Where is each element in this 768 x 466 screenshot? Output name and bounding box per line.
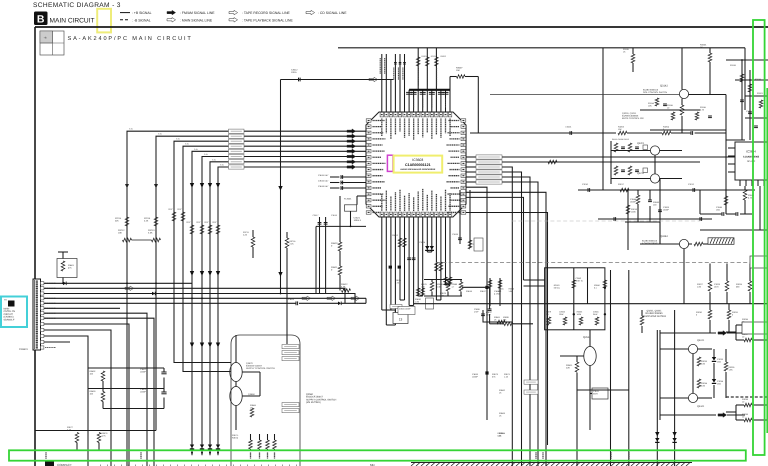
svg-text:MAIN: MAIN — [4, 308, 10, 311]
IC3603 right pin row — [461, 119, 466, 122]
svg-text:: TAPE RECORD SIGNAL LINE: : TAPE RECORD SIGNAL LINE — [242, 11, 291, 15]
svg-text:1.8K: 1.8K — [701, 362, 706, 365]
yellow highlight box (header) — [97, 9, 111, 33]
capacitor C3635 — [458, 237, 462, 239]
legend: CD SIGNAL LINE — [306, 10, 315, 15]
resistor R3578 4.7K — [97, 433, 101, 443]
wires around Q3242 — [640, 243, 679, 245]
svg-text:R3713: R3713 — [148, 229, 155, 232]
svg-text:Q3241: Q3241 — [697, 339, 705, 342]
svg-text:1000P: 1000P — [472, 375, 478, 378]
pin box specks IC3603 left — [368, 120, 370, 122]
svg-text:C3619 0.47: C3619 0.47 — [318, 185, 329, 188]
svg-text:MUTE CONTROL SW: MUTE CONTROL SW — [622, 117, 644, 120]
right margin parts column — [741, 60, 743, 140]
resistor R3210 on right wire — [548, 160, 557, 164]
transistor Q3570 — [230, 363, 242, 382]
CD signal arrow into bundle — [369, 77, 378, 82]
svg-text:R3201: R3201 — [700, 44, 707, 47]
capacitor C3602b — [161, 391, 166, 393]
svg-text:B1GBCFJJ0047: B1GBCFJJ0047 — [246, 365, 263, 368]
svg-text:R3621: R3621 — [331, 266, 338, 269]
wire y430 bottom tie — [35, 430, 156, 432]
IC3604 pin stubs — [728, 147, 735, 149]
signal arrows on vertical bus (lower) — [190, 271, 194, 276]
pin box specks IC3603 bottom — [381, 213, 383, 215]
wire: IC3603 left pin bus 3 — [192, 151, 366, 455]
resistor R3577 4.7K — [75, 433, 79, 443]
connector CN3601 body — [33, 279, 41, 350]
small box C3634 — [398, 307, 415, 315]
capacitor C3636 and corner wire x490 y315 — [465, 212, 467, 214]
svg-text:: +B SIGNAL: : +B SIGNAL — [132, 11, 152, 15]
pin box specks IC3603 right — [462, 120, 464, 122]
wire row y415 with arrow — [660, 414, 716, 416]
resistors R3612 R3613 below IC — [398, 238, 402, 247]
resistor row R3579/R3580 below IC — [430, 282, 434, 291]
wire CN pin8 y318 turn down x154 — [44, 318, 154, 466]
legend: FM/AM SIGNAL LINE — [167, 10, 176, 15]
svg-text:R3617: R3617 — [480, 290, 487, 293]
wires around Q3142 — [490, 94, 679, 96]
svg-text:HEADPHONE MUTING: HEADPHONE MUTING — [642, 315, 666, 318]
svg-text:C3210: C3210 — [582, 183, 589, 186]
op IC IC3604 body — [735, 142, 768, 180]
wire: IC right pin y192 to bottom bus — [466, 192, 546, 466]
top bundle vertical wires — [381, 54, 383, 112]
svg-text:Q3242: Q3242 — [660, 235, 668, 238]
pin box specks IC3603 top — [381, 114, 383, 116]
svg-text:Q3201, Q3211: Q3201, Q3211 — [622, 112, 637, 115]
resistor R3116 on x682 — [681, 99, 683, 105]
wire: analog supply y79 — [281, 79, 394, 81]
svg-text:R3605: R3605 — [431, 55, 437, 58]
junction wires y287 — [462, 286, 490, 288]
resistors R3714 R3715 lower — [125, 217, 129, 226]
resistor R3711 column — [251, 237, 255, 247]
resistor R3602a — [101, 371, 105, 381]
svg-text:CNTRL CN: CNTRL CN — [4, 310, 16, 313]
wire CN pin7 y313 turn down x147 — [44, 313, 147, 466]
svg-text:Q3142: Q3142 — [660, 85, 668, 88]
capacitor arrows above green bus — [190, 343, 194, 348]
section marker B — [34, 12, 48, 26]
svg-text:TO: TO — [4, 299, 7, 302]
wire CN pin4 y298 — [44, 297, 366, 299]
mute control cluster rectangle — [545, 268, 605, 330]
wires from right pin labels — [502, 156, 735, 158]
wire y133 row from IC pin L-OUT — [470, 132, 616, 134]
wire x610 vertical — [610, 270, 612, 466]
resistor R3246 — [724, 196, 728, 205]
svg-text:SA-AK240P/PC MAIN CIRCUIT: SA-AK240P/PC MAIN CIRCUIT — [68, 35, 193, 42]
wire: IC3603 left pin bus 4 — [202, 157, 366, 456]
boxed part below IC right — [474, 238, 483, 251]
wire VREF node — [316, 225, 366, 227]
bypass capacitors row — [406, 91, 412, 93]
wires around Q3511 — [589, 330, 591, 347]
resistors between Q3241 Q3441 — [697, 357, 701, 366]
wire CN pin10 y330 turn down x111 — [44, 330, 111, 466]
svg-text:4.7K: 4.7K — [748, 196, 753, 199]
resistors on vertical bus R3702-R3705 — [172, 212, 176, 221]
wire: IC3603 left pin bus 5 — [210, 162, 366, 456]
svg-text:1.8K: 1.8K — [701, 384, 706, 387]
IC3603 right pin net labels — [466, 156, 476, 158]
bypass bus bar above IC — [409, 89, 450, 91]
signal arrows into IC3603 left pins — [347, 129, 356, 134]
svg-text:R3618: R3618 — [466, 290, 473, 293]
small parts at x485-512 y310-330 — [483, 310, 512, 322]
transistor Q3211 — [650, 174, 659, 183]
green highlight bar (bottom bus) — [9, 450, 746, 460]
vertical x103 net — [102, 381, 104, 392]
svg-text:2.2K: 2.2K — [290, 242, 295, 245]
yellow highlight box around IC3603 part number — [394, 156, 443, 173]
svg-text:1000P: 1000P — [140, 370, 146, 373]
wire x682 from top rail — [681, 48, 683, 90]
capacitor C3628 470P — [489, 287, 491, 309]
svg-text:2.2K: 2.2K — [144, 220, 149, 223]
svg-text:R3620: R3620 — [331, 242, 338, 245]
wire CN pin12 y342 — [44, 341, 70, 343]
svg-text:B: B — [37, 13, 45, 25]
svg-text:1500P: 1500P — [663, 208, 669, 211]
IC3603 bottom pin name labels — [381, 194, 383, 211]
wire x604 from top rail — [602, 48, 604, 190]
second resistor row y310 right — [708, 310, 712, 319]
svg-text:FL3601: FL3601 — [344, 198, 352, 201]
wire x577 down — [576, 390, 578, 466]
right edge resistors near y405 — [744, 403, 752, 407]
svg-text:1500P: 1500P — [630, 200, 636, 203]
resistors near x495 bottom — [488, 280, 492, 288]
resistors R3620 R3621 on AVSS branch — [338, 242, 342, 251]
legend: MAIN SIGNAL LINE — [167, 18, 176, 23]
wire CN pin2 y288 to x345 — [44, 288, 345, 303]
net label boxes on left pin bus — [229, 129, 245, 133]
svg-text:Q3201: Q3201 — [637, 142, 645, 145]
svg-text:100B: 100B — [577, 313, 582, 316]
svg-text:470P: 470P — [486, 313, 491, 316]
dashed -B line y262 — [436, 262, 768, 264]
net boxes below IC — [382, 309, 396, 311]
resistor R3240 column x642 — [640, 316, 644, 325]
svg-text:C3616 0.47: C3616 0.47 — [318, 180, 329, 183]
svg-text:0.1: 0.1 — [594, 286, 597, 289]
labels inside green bus — [45, 452, 47, 458]
vertical x628 lower — [627, 190, 629, 250]
svg-text:C1AB00001121: C1AB00001121 — [405, 163, 431, 167]
legend: -B SIGNAL — [120, 19, 130, 21]
svg-text:S-IN: S-IN — [212, 158, 216, 161]
resistor R3115 vertical from rail — [631, 54, 635, 63]
svg-text:C3624: C3624 — [419, 241, 426, 244]
svg-text:S-IN: S-IN — [220, 164, 224, 167]
svg-text:R3119: R3119 — [730, 64, 737, 67]
legend: TAPE RECORD SIGNAL LINE — [229, 10, 238, 15]
svg-text:S-IN: S-IN — [194, 148, 198, 151]
cyan highlight box: TO MAIN CONTROL CIRCUIT — [1, 297, 27, 328]
tick marks bottom edge — [100, 465, 102, 466]
svg-text:METAL: METAL — [554, 286, 560, 289]
wire branches right edge — [735, 325, 737, 340]
svg-text:R3712: R3712 — [118, 229, 125, 232]
resistors row y281-296 right — [708, 281, 712, 291]
transistor Q3560 — [230, 387, 242, 406]
cap arrows on x657 x674 — [655, 438, 659, 442]
resistor R3622 4.7K horizontal — [342, 289, 351, 293]
svg-text:22K: 22K — [115, 220, 119, 223]
test point box 13 — [393, 313, 408, 324]
wire CN pin3 y293 to x355 — [44, 294, 355, 304]
wire: IC3603 left pin bus to Q3570 — [174, 141, 366, 362]
svg-text:1.1K: 1.1K — [504, 375, 509, 378]
resistor network R3601 box — [57, 259, 77, 278]
dashed -B line y222 — [512, 220, 700, 222]
wire long vertical x281 — [280, 80, 282, 294]
wire y368 tie — [88, 367, 164, 369]
svg-text:R3216 C3208 R3215: R3216 C3208 R3215 — [612, 138, 629, 141]
wire: top rail y48 — [338, 47, 745, 49]
svg-text:10K: 10K — [118, 232, 122, 235]
IC3603 left pin name labels — [373, 120, 385, 122]
ferrite bead FL3601 — [357, 195, 366, 197]
caps below IC second row — [407, 257, 411, 259]
capacitor C3619 0.47/50 — [341, 187, 366, 189]
svg-text:WVR: WVR — [593, 392, 598, 395]
wire top rail end corner — [744, 48, 746, 110]
vertical x660 — [659, 178, 661, 244]
wire CN pin5 y303 with C3629 — [44, 302, 296, 304]
wire stub from resistor network up — [62, 252, 64, 259]
resistors R3604-R3606 on top bundle — [416, 57, 420, 66]
wire: IC3603 left pin bus to Q3560 — [183, 146, 366, 371]
svg-text:B1ABGC000065: B1ABGC000065 — [646, 312, 664, 315]
transistor Q3201 — [650, 146, 659, 155]
svg-text:Q3241, Q3441: Q3241, Q3441 — [646, 310, 662, 313]
svg-text:15K: 15K — [456, 69, 460, 72]
svg-text:CIRCUIT: CIRCUIT — [4, 313, 14, 316]
svg-text:C3201: C3201 — [566, 126, 573, 129]
svg-text:R3607: R3607 — [456, 67, 463, 70]
capacitor C3602a — [161, 371, 166, 373]
svg-text:R3574: R3574 — [232, 436, 239, 439]
transistor Q3241 — [688, 344, 697, 353]
svg-text:B1GDCFJJ0047: B1GDCFJJ0047 — [306, 396, 323, 399]
capacitor C3612 10/16 — [298, 78, 300, 82]
wire CN pin6 y308 — [44, 307, 120, 309]
svg-text:Q3441: Q3441 — [697, 405, 705, 408]
resistors R3615 R3616 below IC — [435, 262, 439, 271]
svg-text:B1ABGC000005: B1ABGC000005 — [622, 115, 639, 118]
wire CN pin1 y283 — [44, 282, 192, 284]
wire CN pin9 y324 turn down x129 — [44, 324, 129, 466]
resistor R3614 — [468, 240, 472, 249]
connector CN3601 pin stubs — [41, 282, 44, 285]
svg-text:SUPPLY CONTROL SWITCH: SUPPLY CONTROL SWITCH — [306, 398, 337, 401]
resistor R3602b — [101, 392, 105, 402]
IC3603 top pin row — [380, 112, 383, 117]
svg-text:OP AMP: OP AMP — [747, 160, 756, 163]
capacitor C3209 — [658, 209, 662, 211]
svg-text:R3604: R3604 — [421, 55, 427, 58]
svg-text:22K: 22K — [566, 367, 570, 370]
wires right-mid below IC — [469, 190, 471, 248]
hatched connector mark — [708, 238, 734, 245]
svg-text:3.3K: 3.3K — [148, 232, 153, 235]
wire: IC3603 left pin bus 2 — [156, 136, 366, 430]
svg-text:R3511: R3511 — [566, 364, 573, 367]
svg-text:100/6.3: 100/6.3 — [354, 219, 362, 222]
op IC U IC3603 body — [366, 112, 466, 217]
svg-text:S-IN: S-IN — [185, 143, 189, 146]
svg-text:1.8K: 1.8K — [697, 285, 702, 288]
hatched bar bottom — [411, 463, 692, 466]
junction wires y303 — [414, 303, 768, 305]
resistor R3247 — [694, 242, 703, 246]
net labels left of mute box — [524, 380, 538, 384]
electrolytic caps C3624 C3625 below IC — [425, 246, 429, 250]
IC3603 bottom pin wires — [381, 217, 383, 310]
svg-text:R3606: R3606 — [440, 55, 446, 58]
IC3603 left pin row — [366, 119, 371, 122]
svg-text:S-IN: S-IN — [176, 138, 180, 141]
resistor R3112 1K — [708, 53, 712, 62]
resistor R3235 — [724, 362, 728, 371]
magenta highlight box (inside IC3603) — [387, 155, 393, 171]
IC3603 top pin name labels — [381, 119, 383, 137]
resistor R3607 15K — [450, 76, 457, 78]
supply control box outline — [231, 335, 300, 466]
svg-text:1000P: 1000P — [140, 390, 146, 393]
resistor R3245 vertical right — [743, 190, 747, 200]
frame top border — [35, 26, 768, 28]
svg-text:C3212: C3212 — [688, 183, 695, 186]
resistors above green bus x250-275 — [249, 440, 253, 449]
next section marker (bottom left, cut off) — [45, 462, 54, 466]
resistor R3716 column — [285, 238, 289, 248]
mute cluster upper parts — [572, 280, 576, 288]
svg-text:4.7: 4.7 — [452, 285, 455, 288]
resistor R3511 22K — [575, 362, 579, 372]
svg-text:: MAIN SIGNAL LINE: : MAIN SIGNAL LINE — [180, 18, 213, 22]
capacitor C3615 0.47/50 — [341, 176, 366, 178]
transistor Q3142 — [679, 89, 688, 98]
svg-text:4.7K: 4.7K — [700, 108, 705, 111]
svg-text:C3617: C3617 — [313, 214, 320, 217]
svg-text:(CN3601): (CN3601) — [4, 316, 14, 319]
wire row y190 with parts — [578, 189, 755, 191]
svg-text:R3622: R3622 — [341, 283, 348, 286]
svg-text:S-IN: S-IN — [204, 153, 208, 156]
svg-text:4.7K: 4.7K — [395, 281, 400, 284]
transistor Q3441 — [688, 393, 697, 402]
svg-text:13: 13 — [399, 318, 403, 322]
svg-text:Q3560: Q3560 — [306, 393, 314, 396]
svg-text:C3621: C3621 — [354, 217, 361, 220]
svg-text:4.7K: 4.7K — [67, 428, 72, 431]
svg-text:R3612: R3612 — [392, 234, 399, 237]
capacitors C3617 C3618 4.7/50 — [319, 217, 321, 294]
IC3603 right pin name labels — [449, 120, 460, 122]
wire from R3607 down to y133 row — [477, 77, 479, 134]
svg-text:C3612: C3612 — [291, 69, 298, 72]
wire x628 vertical — [628, 270, 630, 466]
svg-text:2.2K: 2.2K — [243, 233, 248, 236]
legend: TAPE PLAYBACK SIGNAL LINE — [229, 18, 238, 23]
svg-text:R3217: R3217 — [618, 183, 625, 186]
svg-text:IC3604: IC3604 — [746, 150, 756, 154]
svg-text:: TAPE PLAYBACK SIGNAL LINE: : TAPE PLAYBACK SIGNAL LINE — [242, 18, 293, 22]
right edge resistors near y325 — [744, 323, 752, 327]
svg-text:C3635: C3635 — [452, 233, 459, 236]
capacitor C3616 0.47/50 — [341, 182, 366, 184]
svg-text:R3121: R3121 — [757, 92, 764, 95]
svg-text:: CD SIGNAL LINE: : CD SIGNAL LINE — [318, 11, 347, 15]
svg-text:1.8K: 1.8K — [729, 368, 734, 371]
junction squares below IC — [389, 266, 392, 269]
box right edge y322 — [742, 322, 768, 334]
wires under IC3604 — [699, 190, 701, 214]
svg-text:SUPPLY CONTROL SWITCH: SUPPLY CONTROL SWITCH — [246, 367, 275, 370]
wire x547 down — [466, 213, 548, 446]
wires joining bottom cluster — [400, 299, 405, 301]
svg-text:S-IN: S-IN — [158, 133, 162, 136]
svg-text:C3615 0.47: C3615 0.47 — [318, 174, 329, 177]
part C3511 box — [592, 388, 608, 399]
sheet reference grid box — [40, 31, 64, 55]
components of mute control switch pair — [610, 141, 612, 184]
svg-text:AUDIO DSP/ANALOG PROCESSOR: AUDIO DSP/ANALOG PROCESSOR — [400, 168, 435, 171]
signal arrows on vertical bus (upper) — [190, 183, 194, 188]
svg-text:C3618: C3618 — [331, 214, 338, 217]
wire: IC3603 left pin bus 6 — [218, 167, 366, 455]
wire: IC3603 left pin bus 1 — [127, 131, 366, 466]
net labels on supply control box — [282, 345, 299, 349]
dashed -B line y397 — [726, 396, 768, 398]
resistor R3628 56K — [490, 323, 504, 325]
svg-text:: -B SIGNAL: : -B SIGNAL — [132, 18, 151, 22]
svg-text:IC3603: IC3603 — [412, 158, 423, 162]
svg-text:MAIN CIRCUIT: MAIN CIRCUIT — [50, 18, 95, 25]
svg-text:: FM/AM SIGNAL LINE: : FM/AM SIGNAL LINE — [180, 11, 215, 15]
svg-text:4.7/50: 4.7/50 — [494, 292, 500, 295]
svg-text:SD/MO/LF: SD/MO/LF — [4, 318, 15, 321]
wire x487 down with parts — [466, 187, 487, 420]
right margin stubs — [745, 95, 768, 97]
frame left border — [34, 27, 36, 466]
wire y219 row — [598, 218, 712, 220]
svg-text:10/16: 10/16 — [291, 71, 297, 74]
caps C3233 C3234 — [712, 357, 716, 361]
mute cluster lower parts — [547, 317, 551, 325]
svg-text:4.7K: 4.7K — [102, 434, 107, 437]
green highlight column (right bus) — [753, 20, 765, 455]
svg-text:C3629: C3629 — [288, 298, 295, 301]
svg-text:S-IN: S-IN — [129, 128, 133, 131]
small box right edge y256 — [750, 256, 768, 268]
svg-text:100K: 100K — [631, 210, 636, 213]
svg-text:+B: +B — [44, 37, 47, 40]
svg-text:(MS MUTING): (MS MUTING) — [306, 401, 321, 404]
svg-text:TEST IN: TEST IN — [576, 279, 584, 282]
svg-text:Q3570: Q3570 — [246, 362, 253, 365]
resistor R3244 and cap C3247 — [636, 195, 640, 204]
capacitors C3605-C3607 on top bundle — [394, 62, 397, 64]
IC3603 bottom pin row — [380, 212, 383, 217]
green highlight line (far right edge) — [766, 88, 768, 433]
